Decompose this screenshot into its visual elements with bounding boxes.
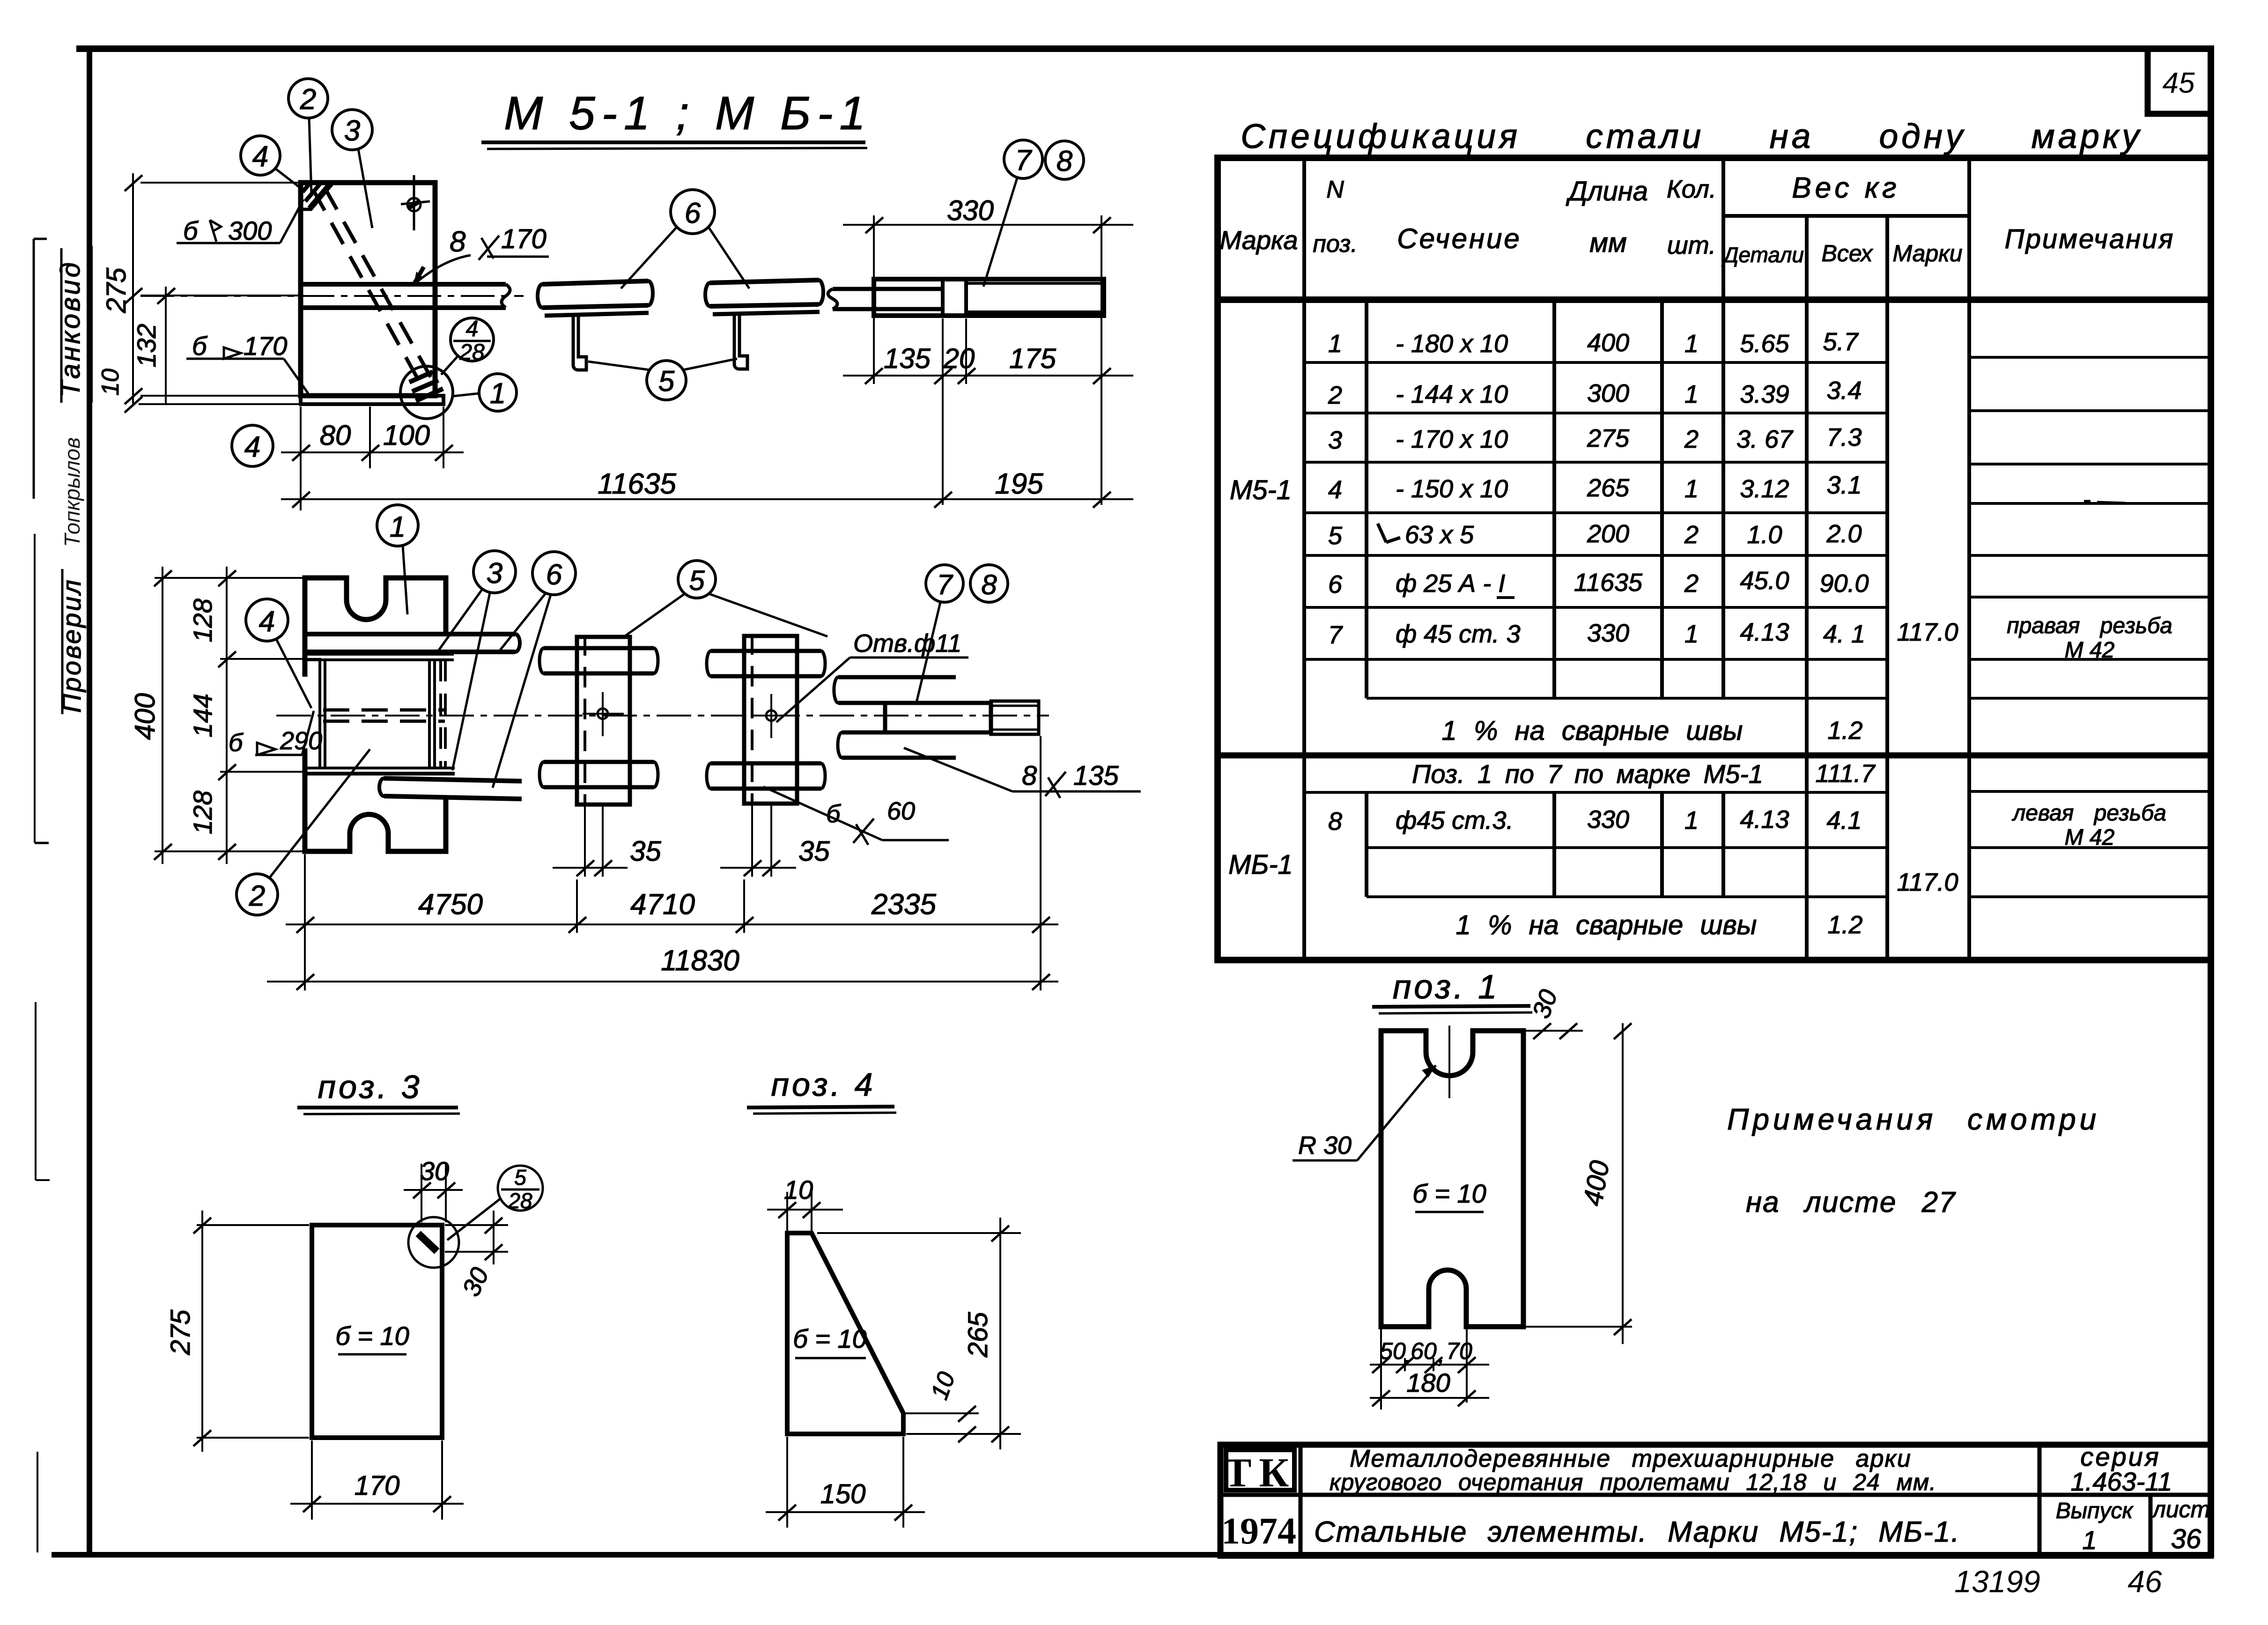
svg-text:1.463-11: 1.463-11 — [2071, 1467, 2172, 1496]
поз.4 dimension 10 (top) — [767, 1192, 843, 1231]
hidden gusset pos.4 dashed diagonal — [313, 189, 424, 391]
svg-text:ТК: ТК — [1224, 1450, 1297, 1496]
rod pos.6 threaded end entering coupling — [833, 287, 943, 291]
svg-text:11830: 11830 — [661, 945, 739, 977]
svg-text:170: 170 — [501, 224, 547, 254]
svg-text:35: 35 — [630, 835, 661, 867]
row separator above 1% — [1367, 697, 1887, 700]
svg-text:Детали: Детали — [1721, 243, 1804, 267]
bolt view 2 upper pipe — [711, 649, 821, 653]
callout circle 4 (bottom) — [232, 425, 273, 466]
svg-text:10: 10 — [97, 369, 124, 396]
sheet border frame top — [76, 45, 2211, 52]
svg-text:150: 150 — [820, 1479, 866, 1509]
bolt view 1 plate pos.5 — [577, 637, 630, 805]
svg-text:28: 28 — [459, 340, 485, 365]
callout circle 7 (elevation) — [926, 565, 963, 602]
callout circle 1 (elevation view, above plate) — [377, 505, 418, 546]
svg-text:Примечания: Примечания — [2005, 224, 2175, 254]
table outer border — [1218, 158, 2211, 960]
weld label б 170 (lower left) — [186, 347, 308, 393]
rod break symbol — [502, 284, 510, 308]
svg-text:175: 175 — [1009, 343, 1056, 374]
rod pos.8 threaded end — [991, 701, 1039, 734]
svg-text:Спецификация стали на одну мар: Спецификация стали на одну марку — [1241, 118, 2142, 155]
column Марка — [1302, 158, 1306, 960]
callout circle 2 (elevation) — [236, 874, 278, 915]
svg-text:144: 144 — [188, 694, 217, 737]
svg-text:4.1: 4.1 — [1826, 806, 1862, 835]
svg-text:330: 330 — [1587, 619, 1629, 647]
sheet border frame left — [87, 47, 92, 1557]
svg-text:4.13: 4.13 — [1740, 805, 1789, 834]
dimension 11635 and 195 main line — [281, 406, 1133, 510]
svg-text:45: 45 — [2163, 67, 2195, 99]
svg-text:4750: 4750 — [418, 888, 483, 921]
clamp pipe segment 2 (pos.6) — [710, 280, 819, 283]
svg-text:36: 36 — [2171, 1524, 2202, 1554]
row separator 1 — [1304, 361, 1887, 364]
svg-text:265: 265 — [963, 1312, 993, 1358]
svg-text:1: 1 — [1328, 330, 1342, 358]
coupling upper pipe — [838, 675, 956, 680]
svg-text:2: 2 — [1328, 381, 1342, 409]
gusset pos.4 hatched corner piece — [301, 183, 333, 209]
dimensions 4750 / 4710 / 2335 — [286, 736, 1058, 990]
svg-text:4: 4 — [466, 317, 479, 341]
svg-text:1: 1 — [1684, 330, 1699, 358]
chamfer label 8 x 135 — [904, 748, 1012, 791]
callout circle 5 (top) — [647, 361, 686, 400]
svg-text:Стальные элементы. Марки М5: Стальные элементы. Марки М5-1; МБ-1. — [1314, 1516, 1960, 1548]
svg-text:4: 4 — [244, 431, 260, 463]
svg-text:2: 2 — [1684, 569, 1699, 598]
svg-text:4. 1: 4. 1 — [1823, 620, 1865, 648]
svg-text:400: 400 — [1587, 329, 1629, 357]
table section divider M5-1/MB-1 — [1218, 753, 2211, 759]
bolt view 1 upper pipe — [544, 646, 654, 650]
bolt axis mark view 1 — [598, 709, 608, 719]
svg-text:60: 60 — [887, 797, 915, 825]
svg-text:б: б — [183, 216, 199, 245]
detail circle at plate corner — [400, 366, 453, 419]
svg-text:М 42: М 42 — [2065, 825, 2115, 850]
svg-text:10: 10 — [784, 1175, 813, 1204]
dimension 330 — [843, 215, 1133, 505]
hidden bolt verticals dashed — [439, 660, 442, 768]
svg-text:111.7: 111.7 — [1815, 760, 1876, 788]
svg-text:4: 4 — [1328, 476, 1342, 504]
svg-text:117.0: 117.0 — [1897, 868, 1958, 896]
svg-text:Топкрылов: Топкрылов — [60, 437, 84, 547]
svg-text:290: 290 — [280, 727, 322, 755]
svg-text:1: 1 — [1684, 380, 1699, 408]
svg-text:8: 8 — [1022, 761, 1037, 791]
svg-text:1: 1 — [1684, 806, 1699, 835]
svg-text:275: 275 — [165, 1309, 196, 1356]
bolt view 2 plate pos.5 — [744, 636, 797, 804]
row separator below row 8 — [1367, 846, 1887, 849]
svg-text:поз. 1: поз. 1 — [1393, 968, 1500, 1006]
svg-text:7.3: 7.3 — [1826, 423, 1862, 451]
svg-text:5.7: 5.7 — [1823, 328, 1859, 356]
lower rod pos.6 — [384, 778, 522, 781]
svg-text:правая резьба: правая резьба — [2007, 613, 2172, 638]
svg-text:45.0: 45.0 — [1740, 567, 1789, 595]
svg-text:1.0: 1.0 — [1747, 521, 1782, 549]
svg-text:20: 20 — [943, 343, 975, 374]
svg-text:8: 8 — [1328, 807, 1342, 835]
svg-text:11635: 11635 — [598, 468, 676, 500]
поз.3 corner detail circle — [408, 1217, 459, 1268]
svg-text:R 30: R 30 — [1298, 1131, 1352, 1160]
svg-text:- 144 х 10: - 144 х 10 — [1396, 380, 1508, 408]
svg-text:Примечания смотри: Примечания смотри — [1727, 1102, 2100, 1136]
svg-text:1: 1 — [1684, 620, 1699, 648]
svg-text:Вес кг: Вес кг — [1792, 172, 1900, 204]
поз.4 dimension 150 — [766, 1437, 925, 1528]
поз.4 dimension 265 — [817, 1218, 1021, 1449]
cap plate pos.3 top — [305, 652, 454, 656]
svg-text:275: 275 — [101, 267, 132, 314]
svg-text:275: 275 — [1587, 424, 1630, 452]
svg-text:МБ-1: МБ-1 — [1228, 849, 1293, 880]
sheet number box 45 — [2148, 49, 2211, 114]
svg-text:1: 1 — [490, 377, 506, 410]
bolt mark on plate — [413, 175, 415, 230]
callout circle 2 — [288, 79, 328, 118]
svg-text:1 % на сварные швы: 1 % на сварные швы — [1442, 716, 1743, 746]
row separator 3 — [1304, 461, 1887, 464]
rod pos.8 thread lines — [966, 282, 1104, 285]
svg-text:3.39: 3.39 — [1740, 380, 1789, 408]
svg-text:5: 5 — [1328, 522, 1343, 550]
angle pos.5 leg 2 — [734, 314, 747, 369]
callout circle 6 (elevation) — [532, 552, 576, 595]
поз.1 dimensions 50 60 70 — [1370, 1329, 1489, 1410]
angle pos.5 verticals right — [428, 660, 431, 768]
centerline of rod — [140, 295, 524, 297]
svg-text:2: 2 — [1684, 425, 1699, 453]
svg-text:N: N — [1326, 176, 1344, 203]
svg-text:4710: 4710 — [630, 888, 695, 921]
поз.1 dimension 30 (top right) — [1526, 1023, 1583, 1039]
coupling sleeve pos.7 — [885, 703, 991, 732]
svg-text:300: 300 — [1587, 379, 1629, 407]
coupling sleeve pos.7 outline — [874, 279, 1104, 316]
svg-text:46: 46 — [2128, 1564, 2162, 1599]
bolt axis mark view 2 — [766, 710, 776, 721]
svg-text:6: 6 — [685, 197, 701, 229]
svg-text:2: 2 — [300, 83, 316, 116]
hatch inside detail circle — [409, 372, 443, 401]
sheet border frame bottom — [52, 1552, 2211, 1558]
detail mark circle 4/28 — [451, 318, 494, 361]
row separator 7 — [1304, 658, 1887, 661]
rod pos.6 passing through plate — [303, 282, 506, 287]
callout circle 3 — [332, 110, 372, 150]
angle pos.5 verticals left — [318, 660, 321, 768]
поз.1 dimension 180 — [1370, 1390, 1489, 1406]
svg-text:265: 265 — [1587, 474, 1630, 502]
column Кол — [1721, 158, 1725, 698]
bolt view 1 lower pipe — [544, 760, 654, 764]
поз.3 dimension 30 (top) — [404, 1164, 463, 1222]
поз.1 notch centerline — [1448, 1026, 1450, 1098]
svg-text:- 150 х 10: - 150 х 10 — [1396, 475, 1508, 503]
svg-text:- 180 х 10: - 180 х 10 — [1396, 330, 1508, 358]
callout circle 7 (top) — [1004, 140, 1042, 178]
svg-text:Марки: Марки — [1892, 240, 1962, 266]
svg-text:80: 80 — [320, 420, 351, 451]
svg-text:б = 10: б = 10 — [1412, 1179, 1486, 1208]
поз.3 plate outline — [312, 1225, 442, 1438]
svg-text:Марка: Марка — [1219, 225, 1298, 255]
svg-text:поз.: поз. — [1313, 230, 1358, 258]
svg-text:Всех: Всех — [1822, 240, 1874, 266]
svg-text:330: 330 — [947, 195, 994, 226]
callout circle 5 (elevation bolt views) — [678, 561, 716, 598]
dimension 275 (vertical) — [125, 173, 303, 413]
row separator below empty row MB-1 — [1367, 895, 1887, 898]
svg-text:кругового очертания пролетам: кругового очертания пролетами 12,18 и 24… — [1330, 1469, 1936, 1495]
svg-text:8: 8 — [1056, 145, 1073, 177]
base plate pos.1 (bottom strip) — [301, 396, 443, 404]
svg-text:Выпуск: Выпуск — [2056, 1499, 2134, 1523]
svg-text:поз. 4: поз. 4 — [771, 1066, 875, 1103]
поз.3 dimension 170 — [290, 1440, 464, 1520]
bolt view 2 lower pipe — [711, 761, 821, 766]
svg-text:,: , — [1438, 1342, 1445, 1368]
callout circle 8 (top) — [1045, 141, 1084, 179]
svg-text:6: 6 — [546, 559, 562, 591]
svg-text:3: 3 — [344, 115, 360, 147]
svg-text:б = 10: б = 10 — [335, 1321, 409, 1351]
поз.4 dimension 10 (right small) — [906, 1406, 979, 1442]
stray dash mark in remarks — [2084, 501, 2125, 503]
svg-text:90.0: 90.0 — [1819, 569, 1869, 598]
svg-text:3: 3 — [487, 557, 502, 590]
callout circle 4 (elevation) — [246, 599, 288, 641]
svg-text:330: 330 — [1587, 805, 1629, 834]
svg-text:70: 70 — [1446, 1338, 1472, 1364]
поз.3 dimension 275 — [193, 1211, 309, 1452]
dimensions 128 / 144 / 128 — [218, 567, 321, 864]
svg-text:б: б — [229, 729, 244, 757]
column Детали/Всех — [1805, 216, 1809, 960]
callout circle 3 (elevation) — [473, 551, 516, 593]
dimension 35 (view 2) — [720, 805, 796, 877]
dimension 35 (view 1) — [553, 806, 628, 877]
svg-text:М5-1: М5-1 — [1230, 475, 1292, 505]
dimensions 80 / 100 below plate — [281, 406, 464, 468]
remarks column separators — [1969, 356, 2211, 359]
svg-text:135: 135 — [1073, 761, 1119, 791]
svg-text:60: 60 — [1411, 1338, 1437, 1364]
column Сечение — [1552, 300, 1556, 698]
svg-text:Отв.ф11: Отв.ф11 — [853, 629, 961, 657]
svg-text:132: 132 — [132, 324, 161, 367]
callout circle 8 (elevation) — [970, 565, 1008, 602]
upper rod pos.6 — [307, 632, 515, 636]
svg-text:,: , — [1404, 1342, 1411, 1368]
dimension 400 — [154, 567, 303, 864]
dimensions 135 / 20 / 175 — [843, 318, 1133, 505]
поз.4 gusset outline — [787, 1233, 903, 1434]
svg-text:Кол.: Кол. — [1667, 175, 1716, 203]
svg-text:6: 6 — [1328, 570, 1343, 598]
svg-text:11635: 11635 — [1574, 569, 1643, 597]
svg-text:М 5-1 ; М Б-1: М 5-1 ; М Б-1 — [504, 87, 872, 140]
svg-text:8: 8 — [981, 569, 997, 600]
row separator 2 — [1304, 412, 1887, 414]
svg-text:180: 180 — [1406, 1368, 1450, 1397]
svg-text:1: 1 — [390, 511, 406, 543]
svg-text:170: 170 — [355, 1470, 400, 1501]
clamp shelf plate 1 — [545, 313, 649, 316]
svg-text:2.0: 2.0 — [1826, 520, 1862, 548]
svg-text:5: 5 — [658, 365, 675, 398]
row separator 5 — [1304, 554, 1887, 557]
Вес кг subheader line — [1723, 214, 1969, 218]
sheet border frame right — [2208, 45, 2214, 1557]
column Марки/Примечания — [1967, 158, 1971, 960]
svg-text:200: 200 — [1587, 520, 1629, 548]
svg-text:170: 170 — [244, 331, 287, 361]
TK stamp box — [1226, 1450, 1294, 1490]
svg-text:1.2: 1.2 — [1827, 911, 1862, 939]
clamp pipe segment 1 (pos.6) — [542, 281, 648, 284]
svg-text:шт.: шт. — [1667, 231, 1716, 259]
svg-text:2335: 2335 — [871, 888, 936, 921]
svg-text:ф 45 ст. 3: ф 45 ст. 3 — [1396, 620, 1521, 648]
row separator 6 — [1304, 606, 1887, 609]
svg-text:поз. 3: поз. 3 — [318, 1069, 422, 1105]
svg-text:400: 400 — [129, 693, 161, 740]
svg-text:7: 7 — [937, 569, 953, 600]
svg-text:3.12: 3.12 — [1740, 475, 1789, 503]
svg-text:Длина: Длина — [1566, 176, 1648, 207]
svg-text:30: 30 — [420, 1156, 449, 1186]
svg-text:Сечение: Сечение — [1397, 223, 1522, 254]
svg-text:б = 10: б = 10 — [793, 1324, 867, 1353]
svg-text:2: 2 — [249, 880, 265, 912]
weld label б 60 — [763, 787, 882, 840]
svg-text:100: 100 — [383, 420, 430, 451]
svg-text:М 42: М 42 — [2065, 638, 2115, 663]
svg-text:4.13: 4.13 — [1740, 618, 1789, 646]
svg-text:28: 28 — [508, 1189, 532, 1213]
svg-text:7: 7 — [1015, 144, 1033, 177]
svg-text:135: 135 — [884, 343, 931, 374]
svg-text:4: 4 — [252, 140, 268, 173]
svg-text:- 170 х 10: - 170 х 10 — [1396, 425, 1508, 453]
centerline elevation — [276, 715, 1049, 716]
svg-text:1974: 1974 — [1221, 1511, 1296, 1552]
coupling lower pipe — [842, 731, 956, 735]
svg-text:Поз. 1 по 7 по марке М5-1: Поз. 1 по 7 по марке М5-1 — [1412, 759, 1763, 789]
svg-text:300: 300 — [228, 216, 272, 245]
table header bottom double line — [1218, 296, 2211, 303]
callout circle 4 (top) — [241, 136, 280, 175]
left margin fold line marks — [33, 239, 35, 499]
svg-text:3. 67: 3. 67 — [1736, 425, 1794, 453]
svg-text:2: 2 — [1684, 521, 1699, 549]
svg-text:8: 8 — [450, 226, 466, 258]
cap plate pos.3 bottom — [305, 767, 455, 769]
plate pos.3 outline (end view square plate) — [301, 183, 435, 396]
svg-text:5: 5 — [689, 565, 705, 596]
svg-text:128: 128 — [188, 790, 217, 834]
svg-text:ф45 ст.3.: ф45 ст.3. — [1396, 806, 1514, 835]
svg-text:4: 4 — [259, 606, 275, 638]
svg-text:б: б — [826, 800, 841, 828]
plate pos.1 outline with notches — [305, 578, 446, 677]
svg-text:Танковид: Танковид — [55, 260, 86, 397]
row separator below Поз.1 по 7 — [1304, 791, 1887, 794]
svg-text:1: 1 — [2082, 1525, 2097, 1555]
svg-text:1: 1 — [1684, 475, 1699, 503]
callout circle 1 (top view) — [479, 374, 517, 411]
svg-text:50: 50 — [1380, 1338, 1406, 1364]
svg-text:3.4: 3.4 — [1826, 377, 1862, 405]
svg-text:63 х 5: 63 х 5 — [1405, 521, 1474, 549]
row separator 4 — [1304, 511, 1887, 514]
hidden tie bolts horizontal dashed — [323, 709, 445, 712]
поз.3 detail mark circle 5/28 — [498, 1166, 543, 1211]
svg-text:на листе 27: на листе 27 — [1746, 1186, 1956, 1219]
dimension 11830 — [267, 974, 1058, 990]
svg-text:1 % на сварные швы: 1 % на сварные швы — [1456, 910, 1757, 940]
svg-text:7: 7 — [1328, 621, 1343, 649]
поз.1 dimension 400 — [1526, 1023, 1632, 1344]
svg-text:Металлодеревянные трехшарнирн: Металлодеревянные трехшарнирные арки — [1350, 1445, 1912, 1472]
svg-text:195: 195 — [995, 468, 1043, 500]
svg-text:1.2: 1.2 — [1827, 716, 1862, 745]
bolt head mark — [407, 198, 421, 211]
svg-text:Проверил: Проверил — [57, 578, 86, 713]
angle pos.5 leg 1 — [573, 316, 586, 370]
svg-text:35: 35 — [798, 835, 830, 867]
svg-text:3.1: 3.1 — [1826, 471, 1862, 499]
column N поз — [1365, 300, 1368, 698]
svg-text:117.0: 117.0 — [1897, 618, 1958, 646]
clamp shelf plate 2 — [713, 312, 820, 314]
svg-text:лист: лист — [2151, 1496, 2210, 1522]
svg-text:мм: мм — [1589, 228, 1627, 258]
svg-text:3: 3 — [1328, 426, 1342, 454]
svg-text:5: 5 — [514, 1165, 526, 1189]
weld label б 290 — [255, 711, 314, 755]
svg-text:ф 25 А - I: ф 25 А - I — [1396, 569, 1505, 598]
weld label б 300 (upper left) — [177, 199, 303, 243]
svg-text:б: б — [192, 331, 208, 361]
svg-text:5.65: 5.65 — [1740, 330, 1789, 358]
svg-text:128: 128 — [188, 598, 217, 642]
column Всех/Марки — [1885, 216, 1889, 960]
svg-text:левая резьба: левая резьба — [2011, 801, 2166, 826]
column Длина — [1660, 300, 1664, 698]
svg-text:13199: 13199 — [1954, 1564, 2040, 1599]
поз.3 dimension 30 (right) — [445, 1211, 508, 1264]
callout circle 6 (top) — [671, 190, 715, 234]
поз.1 plate outline with notches — [1381, 1031, 1523, 1327]
